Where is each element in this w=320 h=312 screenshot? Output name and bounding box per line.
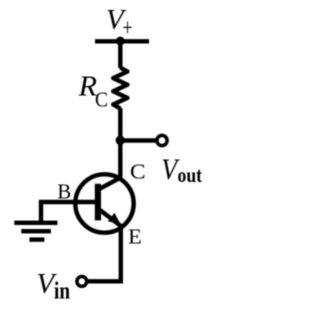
svg-text:B: B <box>57 179 71 203</box>
svg-text:+: + <box>123 15 133 42</box>
svg-text:in: in <box>54 279 70 305</box>
svg-text:E: E <box>128 224 142 248</box>
svg-text:out: out <box>178 163 203 187</box>
svg-text:C: C <box>130 159 146 183</box>
svg-text:C: C <box>95 88 108 112</box>
